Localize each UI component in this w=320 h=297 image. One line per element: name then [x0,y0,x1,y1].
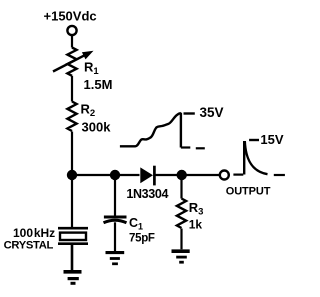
node junction at crystal branch [67,170,77,180]
svg-text:1N3304: 1N3304 [126,187,168,201]
ground below R3 [172,251,190,262]
waveform annotation -15V (output spike) [233,132,285,175]
capacitor C1 75pF [104,175,155,251]
crystal Y1 100kHz [4,175,88,270]
resistor R2 300k [67,101,111,134]
svg-text:1.5M: 1.5M [84,77,113,92]
svg-text:15V: 15V [260,132,283,147]
svg-text:75pF: 75pF [129,233,155,245]
svg-text:CRYSTAL: CRYSTAL [4,240,54,252]
resistor R1 1.5M (variable) [53,48,112,92]
resistor R3 1k [177,175,203,249]
wire horizontal bus [72,174,140,176]
svg-text:OUTPUT: OUTPUT [226,185,271,197]
node junction at R3 branch [177,170,187,180]
svg-text:+150Vdc: +150Vdc [44,8,97,23]
diode CR1 1N3304 [126,166,168,201]
svg-text:35V: 35V [200,105,224,120]
wire diode to R3 node [155,174,181,176]
power terminal +150Vdc [44,8,97,35]
output terminal [220,171,271,198]
wire R1 to R2 [71,76,73,102]
wire node to output terminal [182,174,220,176]
svg-text:1k: 1k [189,217,203,231]
svg-text:300k: 300k [82,119,112,134]
svg-text:100kHz: 100kHz [13,226,55,240]
ground below crystal [64,272,82,284]
wire R2 to bus [71,132,73,176]
wire from terminal to R1 [71,35,73,47]
node junction at C1 branch [110,170,120,180]
waveform annotation -35V (staircase ramp) [120,105,224,149]
ground below C1 [106,253,125,264]
